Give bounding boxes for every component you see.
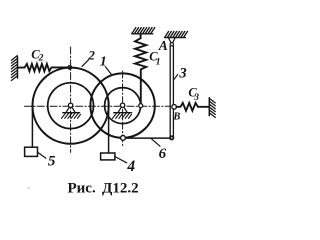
label C1: [149, 50, 160, 68]
vertical centerline wheel 1: [122, 71, 124, 146]
vertical centerline wheel 2: [70, 47, 72, 152]
node: bottom of rod 3: [170, 136, 173, 139]
spring C1: [135, 34, 146, 104]
wheel 2 outer circle: [33, 68, 109, 144]
svg-text:5: 5: [48, 153, 56, 169]
leader of label 3: [174, 75, 178, 80]
ceiling anchor of C1: [132, 28, 155, 34]
weight 5: [25, 147, 38, 156]
faint speck: [28, 187, 30, 189]
svg-text:4: 4: [126, 158, 135, 175]
rod 3: [170, 46, 173, 137]
wheel 2 inner circle: [48, 83, 94, 129]
right wall anchor: [209, 98, 215, 118]
bar 6: [125, 137, 169, 139]
spring C3: [177, 103, 209, 111]
pivot of wheel 1: [113, 103, 132, 118]
node: bottom of wheel 1: [121, 136, 126, 141]
node: C1 attach on wheel 1: [139, 104, 143, 108]
left wall anchor: [11, 56, 17, 81]
svg-text:3: 3: [178, 66, 186, 82]
string of weight 5: [31, 106, 33, 147]
node B: [172, 105, 177, 110]
svg-text:3: 3: [193, 93, 199, 103]
leader of label 6: [151, 139, 160, 147]
horizontal centerline: [25, 105, 170, 107]
leader of label 5: [38, 152, 46, 158]
svg-text:1: 1: [156, 58, 161, 68]
wheel 1 inner circle: [105, 88, 141, 124]
label C3: [188, 86, 199, 104]
svg-text:6: 6: [159, 146, 167, 162]
svg-text:A: A: [158, 38, 168, 53]
spring C2: [18, 64, 68, 71]
leader of label 4: [115, 157, 127, 163]
weight 4: [101, 153, 115, 160]
leader of label 1: [105, 67, 112, 76]
string of weight 4: [108, 106, 110, 153]
pin A: [170, 43, 173, 46]
svg-text:1: 1: [100, 54, 107, 69]
svg-text:Д12.2: Д12.2: [102, 180, 139, 196]
svg-text:2: 2: [87, 48, 95, 63]
svg-text:2: 2: [38, 54, 44, 64]
wheel 1 outer circle: [90, 73, 154, 137]
svg-text:Рис.: Рис.: [68, 180, 96, 196]
label C2: [31, 47, 43, 63]
pivot of wheel 2: [62, 103, 81, 118]
leader of label 2: [82, 60, 88, 67]
ceiling anchor of rod 3: [165, 31, 188, 42]
node: C2 attach on wheel 2 rim: [68, 66, 72, 70]
svg-text:B: B: [172, 111, 180, 122]
